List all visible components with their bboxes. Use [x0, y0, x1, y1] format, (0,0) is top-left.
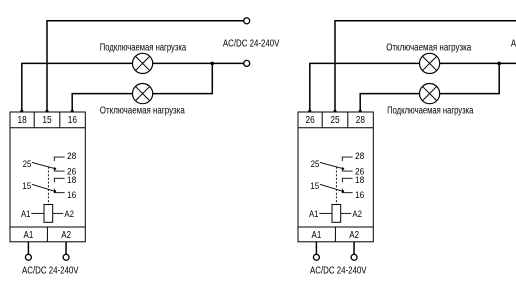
wire from terminal 18 through connected lamp (left) — [22, 63, 244, 112]
top terminal row divider 2 — [59, 112, 61, 128]
svg-text:15: 15 — [42, 115, 52, 126]
wire stub from terminal A2 — [353, 242, 355, 255]
open terminal circle below A2 — [351, 254, 357, 260]
open terminal circle below A1 — [313, 254, 319, 260]
svg-text:A1: A1 — [312, 230, 322, 241]
top terminal row separator line — [10, 127, 85, 129]
svg-text:AC/DC 24-240V: AC/DC 24-240V — [223, 38, 280, 49]
bottom terminal row separator line — [10, 226, 85, 228]
svg-text:A2: A2 — [349, 230, 359, 241]
svg-text:A1: A1 — [24, 230, 34, 241]
svg-text:AC/DC 24-240V: AC/DC 24-240V — [511, 38, 516, 49]
internal pin label 18 — [67, 175, 76, 186]
internal pin label 15 — [22, 181, 31, 192]
relay module body outline — [10, 112, 85, 242]
label connected load (left) — [100, 43, 187, 54]
terminal label 18 — [18, 115, 28, 126]
svg-text:28: 28 — [67, 151, 76, 162]
terminal label 25 — [330, 115, 340, 126]
svg-text:A1: A1 — [309, 209, 319, 220]
svg-text:18: 18 — [18, 115, 28, 126]
svg-text:16: 16 — [68, 115, 78, 126]
wire junction dot at terminal 28 (right) — [359, 110, 362, 113]
svg-text:26: 26 — [306, 115, 316, 126]
lamp disconnected load (right) — [420, 53, 440, 73]
lamp connected load (right) — [420, 84, 440, 104]
label disconnected load (right) — [386, 43, 471, 54]
mechanical linkage dashed line — [335, 167, 337, 205]
bottom terminal row divider — [334, 227, 336, 242]
svg-text:A2: A2 — [61, 230, 71, 241]
svg-text:28: 28 — [355, 151, 364, 162]
terminal label A2 — [349, 230, 359, 241]
terminal label 28 — [356, 115, 366, 126]
fixed contact 26 — [54, 167, 64, 171]
svg-text:Отключаемая нагрузка: Отключаемая нагрузка — [386, 43, 471, 54]
internal pin label 26 — [355, 167, 364, 178]
coil terminal label A1 — [21, 209, 31, 220]
svg-text:16: 16 — [67, 190, 76, 201]
terminal label A1 — [24, 230, 34, 241]
svg-text:25: 25 — [311, 159, 320, 170]
svg-text:AC/DC 24-240V: AC/DC 24-240V — [310, 265, 367, 276]
fixed contact 16 — [342, 189, 352, 193]
fixed contact 16 — [54, 189, 64, 193]
terminal label A1 — [312, 230, 322, 241]
open terminal circle below A1 — [25, 254, 31, 260]
lamp connected load (left) — [133, 53, 153, 73]
terminal label 26 — [306, 115, 316, 126]
wire from terminal 15 to top supply rail (left) — [47, 21, 244, 112]
open supply terminal circle top (left) — [244, 18, 250, 24]
supply label AC/DC 24-240V (bottom) — [310, 265, 367, 276]
changeover contact arm 25-26 — [320, 162, 344, 169]
changeover contact arm 15-16 — [32, 184, 56, 192]
terminal label 16 — [68, 115, 78, 126]
svg-text:15: 15 — [310, 181, 319, 192]
label disconnected load (left) — [100, 105, 185, 116]
top terminal row divider 2 — [347, 112, 349, 128]
internal pin label 16 — [67, 190, 76, 201]
internal pin label 28 — [67, 151, 76, 162]
terminal label A2 — [61, 230, 71, 241]
junction node dot (right) — [497, 62, 501, 66]
top terminal row divider 1 — [321, 112, 323, 128]
junction node dot (left) — [211, 62, 215, 66]
lamp disconnected load (left) — [133, 84, 153, 104]
fixed contact 28 — [54, 157, 64, 161]
internal pin label 18 — [355, 175, 364, 186]
svg-text:18: 18 — [355, 175, 364, 186]
coil terminal label A1 — [309, 209, 319, 220]
wire from terminal 16 through disconnected lamp (left) — [72, 63, 212, 112]
wire junction dot at terminal 15 (left) — [45, 110, 48, 113]
svg-text:Подключаемая нагрузка: Подключаемая нагрузка — [100, 43, 187, 54]
fixed contact 18 — [342, 178, 352, 182]
supply label AC/DC 24-240V (top left) — [223, 38, 280, 49]
svg-text:25: 25 — [330, 115, 340, 126]
coil wire A2 — [341, 212, 352, 214]
wire junction dot at terminal 26 (right) — [308, 110, 311, 113]
internal pin label 26 — [67, 167, 76, 178]
wire stub from terminal A1 — [27, 242, 29, 255]
label connected load (right) — [387, 105, 474, 116]
wire stub from terminal A1 — [315, 242, 317, 255]
svg-text:Отключаемая нагрузка: Отключаемая нагрузка — [100, 105, 185, 116]
coil terminal label A2 — [64, 209, 74, 220]
svg-text:18: 18 — [67, 175, 76, 186]
internal pin label 16 — [355, 190, 364, 201]
internal pin label 25 — [311, 159, 320, 170]
bottom terminal row separator line — [298, 226, 373, 228]
coil wire A1 — [31, 212, 44, 214]
fixed contact 28 — [342, 157, 352, 161]
open terminal circle below A2 — [63, 254, 69, 260]
open supply terminal circle bottom (left) — [244, 60, 250, 66]
top terminal row separator line — [298, 127, 373, 129]
svg-text:A1: A1 — [21, 209, 31, 220]
svg-text:A2: A2 — [64, 209, 74, 220]
coil terminal label A2 — [352, 209, 362, 220]
terminal label 15 — [42, 115, 52, 126]
relay coil — [44, 205, 53, 223]
relay module body outline — [298, 112, 373, 242]
internal pin label 28 — [355, 151, 364, 162]
svg-text:16: 16 — [355, 190, 364, 201]
coil wire A2 — [53, 212, 64, 214]
top terminal row divider 1 — [33, 112, 35, 128]
svg-text:28: 28 — [356, 115, 366, 126]
svg-text:15: 15 — [22, 181, 31, 192]
svg-text:AC/DC 24-240V: AC/DC 24-240V — [22, 265, 79, 276]
wire junction dot at terminal 16 (left) — [71, 110, 74, 113]
svg-text:Подключаемая нагрузка: Подключаемая нагрузка — [387, 105, 474, 116]
internal pin label 15 — [310, 181, 319, 192]
changeover contact arm 25-26 — [32, 162, 56, 169]
wire from terminal 28 through connected lamp (right) — [360, 63, 499, 112]
supply label AC/DC 24-240V (bottom) — [22, 265, 79, 276]
wire junction dot at terminal 25 (right) — [333, 110, 336, 113]
fixed contact 26 — [342, 167, 352, 171]
bottom terminal row divider — [46, 227, 48, 242]
mechanical linkage dashed line — [47, 167, 49, 205]
wire from terminal 26 through disconnected lamp (right) — [310, 63, 516, 112]
svg-text:A2: A2 — [352, 209, 362, 220]
coil wire A1 — [319, 212, 332, 214]
changeover contact arm 15-16 — [320, 184, 344, 192]
fixed contact 18 — [54, 178, 64, 182]
internal pin label 25 — [23, 159, 32, 170]
supply label AC/DC 24-240V (top right, clipped) — [511, 38, 516, 49]
svg-text:25: 25 — [23, 159, 32, 170]
wire junction dot at terminal 18 (left) — [20, 110, 23, 113]
wire stub from terminal A2 — [65, 242, 67, 255]
relay coil — [332, 205, 341, 223]
wire from terminal 25 to top supply rail (right) — [335, 21, 516, 112]
